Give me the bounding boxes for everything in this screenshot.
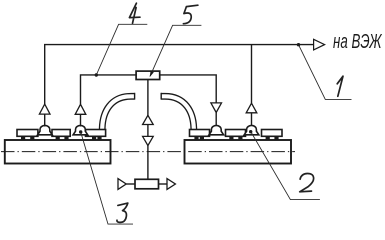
- centerline (dash-dot axis): [1, 151, 295, 153]
- main gas line (top): [45, 45, 314, 105]
- right tube end cap: [160, 93, 162, 100]
- label 2: [300, 173, 314, 191]
- left valve dome 2: [73, 125, 88, 134]
- central triangle down: [143, 136, 154, 145]
- check valve triangle down (right 1): [211, 103, 222, 113]
- regulator U5 body: [136, 71, 160, 79]
- leader line for label 2: [251, 132, 320, 200]
- wire: left valve 2 riser lower part: [80, 114, 82, 126]
- left valve dome 1: [38, 125, 53, 134]
- label 5: [183, 5, 198, 24]
- leader dots: [79, 43, 300, 134]
- second header line: [81, 75, 217, 104]
- pump inlet arrow: [118, 179, 126, 190]
- pump body: [135, 179, 159, 189]
- left manifold flange 1: [17, 130, 38, 137]
- wire: right valve 2 riser lower part: [251, 112, 253, 126]
- label 1: [337, 76, 343, 96]
- flexible tube right (curved pipe): [161, 96, 194, 130]
- check valve triangle up (left 1): [39, 104, 50, 114]
- svg-text:на ВЭЖ: на ВЭЖ: [333, 30, 382, 53]
- right valve dome 1: [209, 125, 224, 134]
- right manifold flange 3: [262, 130, 283, 137]
- pump inlet stub wire: [126, 183, 135, 185]
- left manifold flange 3: [86, 130, 106, 137]
- central riser wire: [147, 80, 149, 180]
- right manifold flange 1: [190, 130, 210, 137]
- flange feet: [21, 136, 279, 139]
- check valve triangle up (right 2): [246, 103, 257, 113]
- left manifold body: [5, 140, 111, 164]
- outlet arrow to VEZh: [314, 39, 325, 50]
- right manifold flange 2: [226, 130, 246, 137]
- left tube end cap: [134, 93, 136, 100]
- leader line for label 4: [96, 24, 147, 75]
- central triangle up: [143, 115, 154, 124]
- pump outlet stub wire: [159, 183, 168, 185]
- label 3: [117, 203, 128, 222]
- right valve dome 2: [244, 125, 259, 134]
- left manifold flange 2: [52, 130, 70, 137]
- flexible tube left (curved pipe): [102, 96, 134, 130]
- leader line for label 1: [81, 24, 352, 224]
- check valve triangle up (left 2): [75, 104, 86, 114]
- pump outlet arrow: [167, 179, 175, 190]
- right manifold body: [185, 140, 292, 164]
- wire: right valve 1 riser lower part: [215, 113, 217, 127]
- label 4: [129, 3, 140, 23]
- leader line for label 5: [150, 25, 201, 76]
- leader line for label 3: [81, 132, 133, 224]
- wire: left valve 1 riser lower part: [44, 114, 46, 126]
- wire: drop from top line to right valve: [251, 45, 253, 104]
